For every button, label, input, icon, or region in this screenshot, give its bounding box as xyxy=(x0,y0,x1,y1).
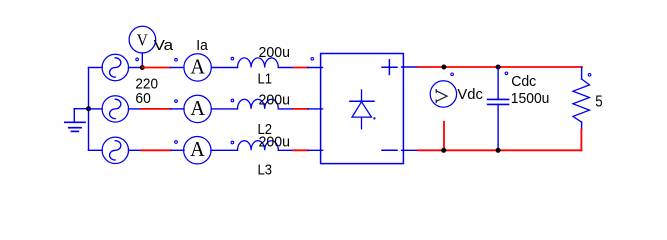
inductor L3 xyxy=(238,141,279,151)
ammeter A2 xyxy=(184,95,211,122)
terminal marker ammeter 1 xyxy=(175,58,178,61)
ac source VSB xyxy=(102,96,128,122)
svg-text:1500u: 1500u xyxy=(511,90,550,107)
diode dot marker xyxy=(373,117,375,119)
wire to rectifier pin 2 xyxy=(308,108,323,110)
svg-text:5: 5 xyxy=(595,93,602,110)
svg-text:A: A xyxy=(190,96,205,120)
wire phase B red to rectifier xyxy=(293,108,308,110)
inductor L1 xyxy=(238,58,279,68)
wire voltmeter Vdc to bottom rail (red) xyxy=(443,122,445,151)
node A xyxy=(140,65,145,70)
wire red to rectifier pin 1 xyxy=(308,67,323,69)
wire source 3 to red phase C xyxy=(129,149,142,151)
wire node A to ammeter 1 (red) xyxy=(142,67,170,69)
wire rectifier + output stub xyxy=(402,66,418,68)
inductor L2 xyxy=(238,99,279,109)
wire inductor L3 to rectifier (blue) xyxy=(278,149,293,151)
wire source 2 to red phase B xyxy=(129,108,142,110)
svg-text:Vdc: Vdc xyxy=(457,86,483,103)
svg-text:V: V xyxy=(137,30,149,49)
wire rectifier - output stub xyxy=(402,149,418,151)
svg-text:L1: L1 xyxy=(258,71,273,88)
node capacitor bottom xyxy=(496,148,501,153)
wire phase B red segment xyxy=(141,108,171,110)
wire red to ammeter 1 (blue) xyxy=(171,67,185,69)
wire left bus vertical xyxy=(88,68,90,151)
svg-text:Cdc: Cdc xyxy=(511,73,536,90)
wire bottom rail red xyxy=(418,149,581,151)
wire ammeter 1 to inductor L1 xyxy=(211,67,237,69)
wire phase C red to rectifier xyxy=(293,149,308,151)
minus sign rectifier negative output xyxy=(382,149,397,151)
svg-text:Va: Va xyxy=(154,37,174,54)
wire top rail red xyxy=(418,66,582,68)
wire red to ammeter 2 xyxy=(171,108,185,110)
ammeter A3 xyxy=(184,137,211,164)
terminal marker voltmeter Vdc xyxy=(451,73,454,76)
wire ammeter 2 to inductor L2 xyxy=(211,108,237,110)
svg-text:200u: 200u xyxy=(259,92,291,109)
wire bus corner to source 3 xyxy=(89,149,103,151)
ground xyxy=(65,109,89,132)
svg-text:A: A xyxy=(190,54,205,78)
terminal marker inductor L2 xyxy=(231,99,234,102)
terminal marker voltmeter Va xyxy=(136,58,139,61)
voltmeter Va xyxy=(129,26,156,67)
terminal marker ammeter 3 xyxy=(175,141,178,144)
voltmeter Vdc xyxy=(430,81,456,107)
terminal marker inductor L1 xyxy=(231,57,234,60)
svg-text:A: A xyxy=(190,137,205,161)
wire inductor L1 to rectifier (red) xyxy=(293,67,308,69)
wire ammeter 3 to inductor L3 xyxy=(211,149,238,151)
svg-text:200u: 200u xyxy=(259,134,291,151)
wire bus to source 2 xyxy=(89,108,103,110)
svg-text:60: 60 xyxy=(135,90,150,107)
wire inductor L2 to rectifier (blue) xyxy=(278,108,293,110)
terminal marker inductor L3 xyxy=(231,141,234,144)
resistor R load xyxy=(573,67,590,130)
wire phase C red segment xyxy=(141,149,171,151)
node ground junction xyxy=(86,106,91,111)
wire source 1 to node A xyxy=(129,67,143,69)
terminal marker rectifier pin 1 xyxy=(311,58,314,61)
wire inductor L1 to rectifier (blue) xyxy=(278,67,293,69)
wire red to ammeter 3 xyxy=(171,149,184,151)
terminal marker resistor xyxy=(588,74,591,77)
ammeter A1 xyxy=(184,54,211,81)
wire bus to source 1 xyxy=(89,67,103,69)
capacitor Cdc xyxy=(488,67,509,150)
svg-text:L3: L3 xyxy=(258,162,273,179)
terminal marker ammeter 2 xyxy=(175,100,178,103)
wire resistor to bottom rail (red) xyxy=(580,130,582,151)
diode symbol inside rectifier xyxy=(350,90,374,129)
node voltmeter Vdc bottom xyxy=(441,148,446,153)
ac source VSA xyxy=(102,54,128,80)
plus sign rectifier positive output xyxy=(382,60,397,75)
node voltmeter Vdc top xyxy=(441,65,446,70)
node capacitor top xyxy=(496,65,501,70)
terminal marker capacitor xyxy=(505,72,508,75)
rectifier bridge module xyxy=(321,54,404,164)
ac source VSC xyxy=(102,137,128,163)
svg-text:Ia: Ia xyxy=(196,37,208,54)
svg-text:200u: 200u xyxy=(259,44,291,61)
wire to rectifier pin 3 xyxy=(308,149,323,151)
